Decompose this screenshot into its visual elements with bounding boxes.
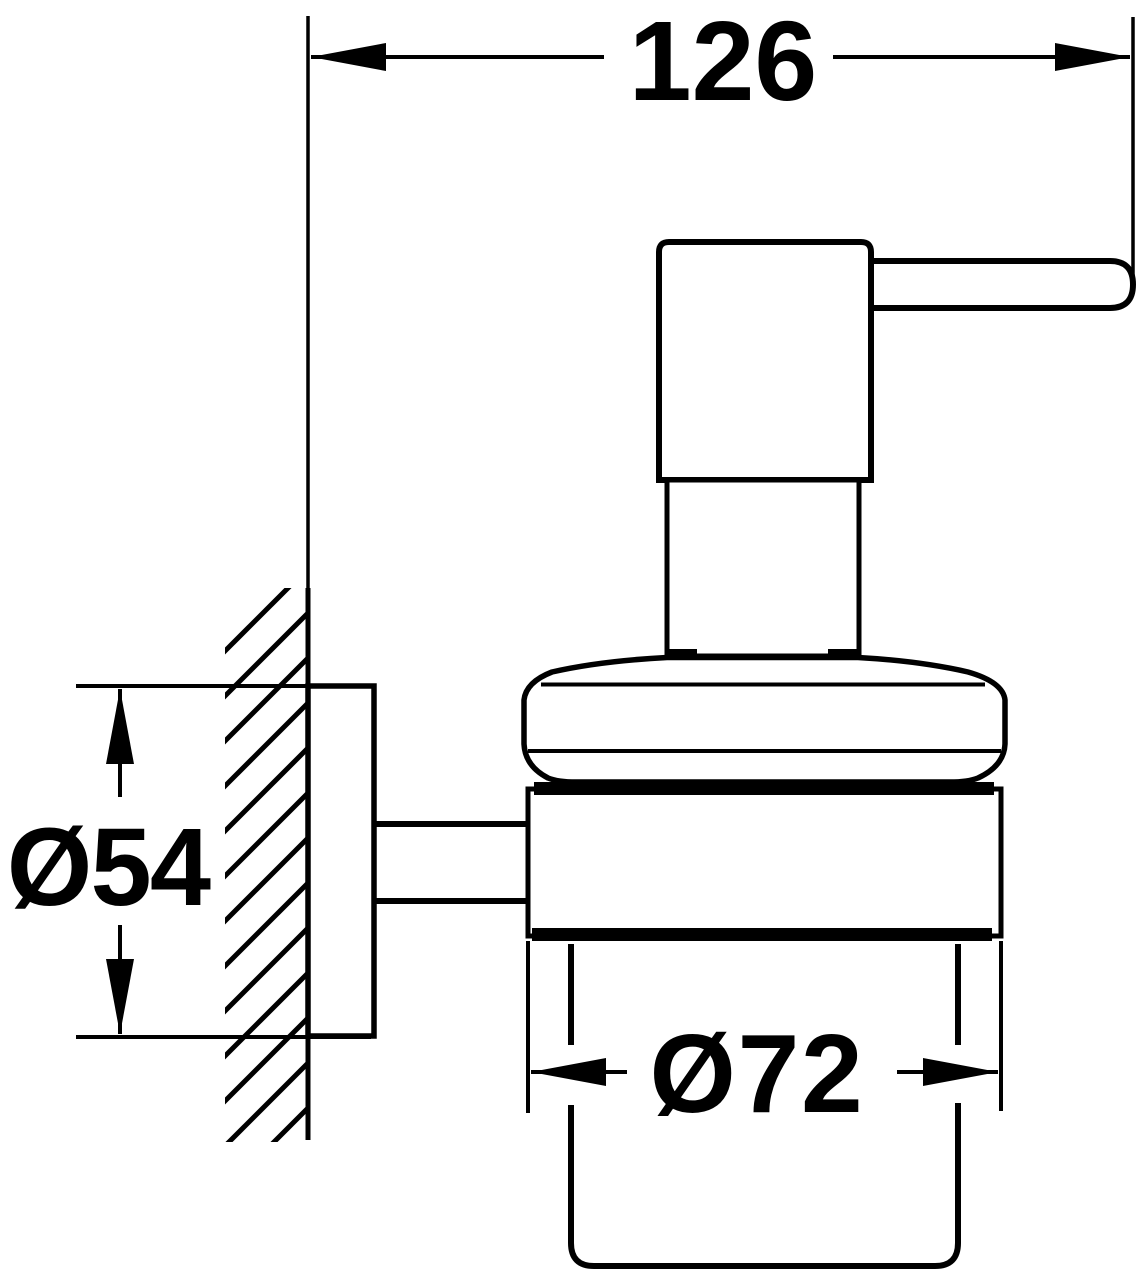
neck bottom tick left	[666, 649, 697, 661]
Ø72 dimension line right	[897, 1070, 998, 1074]
cap inner line 1	[541, 683, 985, 687]
Ø54 extension line top	[76, 684, 371, 688]
pump handle	[869, 261, 1133, 308]
wall plate	[308, 686, 374, 1036]
Ø72 right arrow	[923, 1058, 998, 1086]
svg-text:126: 126	[629, 0, 818, 124]
neck bottom tick right	[828, 649, 859, 661]
Ø54 top arrow	[106, 689, 134, 764]
Ø54 dimension line top	[118, 689, 122, 797]
dimension 126 right arrow	[1055, 43, 1130, 71]
svg-text:Ø54: Ø54	[7, 806, 211, 929]
cap inner line 2	[528, 749, 1001, 753]
glass bottle left edge upper	[568, 944, 574, 1045]
Ø54 extension line bottom	[76, 1035, 371, 1039]
svg-text:Ø72: Ø72	[650, 1012, 865, 1136]
pump head	[659, 242, 871, 480]
Ø54 dimension line bottom	[118, 925, 122, 1034]
mounting arm top line	[376, 821, 528, 827]
holder ring top band	[534, 782, 994, 795]
mounting arm bottom line	[376, 898, 528, 904]
glass bottle right edge upper	[955, 944, 961, 1045]
Ø72 extension line left	[526, 941, 530, 1113]
glass bottle body	[571, 1103, 958, 1266]
holder ring bottom band	[532, 928, 992, 941]
holder ring outline	[528, 789, 1001, 936]
wall line	[306, 588, 311, 1140]
pump neck	[667, 480, 859, 656]
Ø72 dimension line left	[531, 1070, 627, 1074]
handle extension line	[1131, 17, 1135, 291]
Ø72 left arrow	[531, 1058, 606, 1086]
Ø72 extension line right	[999, 941, 1003, 1111]
dimension 126 line right segment	[833, 55, 1130, 59]
dimension 126 left arrow	[311, 43, 386, 71]
wall extension line	[306, 16, 310, 590]
wall hatching	[219, 567, 309, 1242]
bottle cap dome	[524, 658, 1005, 783]
Ø54 bottom arrow	[106, 959, 134, 1034]
dimension 126 line left segment	[311, 55, 604, 59]
